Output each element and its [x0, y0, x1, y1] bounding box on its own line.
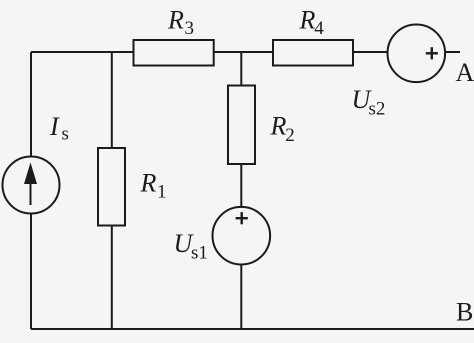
wire branch: Us1 to bottom wire [240, 265, 242, 330]
wire bottom: node B rail [31, 328, 474, 330]
svg-text:B: B [456, 297, 473, 326]
svg-text:2: 2 [285, 125, 295, 146]
svg-text:R: R [167, 5, 184, 34]
plus sign of Us1 [236, 212, 248, 224]
wire branch R1: top wire to R1 [111, 52, 113, 148]
svg-text:R: R [140, 169, 157, 198]
svg-text:R: R [299, 5, 316, 34]
voltage source U_s1 [213, 207, 271, 265]
svg-text:s1: s1 [191, 243, 208, 264]
svg-text:1: 1 [157, 182, 167, 203]
voltage source U_s2 [388, 25, 446, 83]
wire top: R3 to R4 [214, 51, 273, 53]
wire left: top node down to current source [30, 52, 32, 157]
wire branch R2: top node to R2 [240, 52, 242, 86]
resistor R2 [228, 86, 255, 165]
wire branch R1: R1 to bottom wire [111, 226, 113, 330]
resistor R3 [134, 40, 214, 66]
resistor R1 [98, 148, 125, 226]
svg-text:4: 4 [314, 18, 324, 39]
wire branch: R2 to Us1 [240, 164, 242, 207]
svg-text:s: s [62, 123, 69, 144]
resistor R4 [273, 40, 353, 66]
svg-text:s2: s2 [369, 99, 386, 120]
wire top: left node to R3 [31, 51, 134, 53]
svg-text:I: I [49, 112, 60, 141]
arrow of current source Is [24, 163, 37, 206]
wire left: current source to bottom wire [30, 214, 32, 330]
svg-text:A: A [456, 58, 474, 87]
wire top: Us2 to terminal A [445, 51, 460, 53]
wire top: R4 to Us2 [353, 51, 388, 53]
current source I_s [3, 157, 60, 214]
svg-text:R: R [270, 111, 287, 140]
plus sign of Us2 [426, 47, 438, 59]
svg-text:3: 3 [185, 18, 195, 39]
